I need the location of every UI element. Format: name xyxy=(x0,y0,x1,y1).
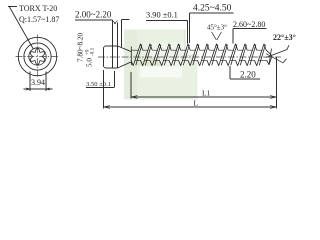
tip angle upper line xyxy=(266,45,289,58)
45 deg callout V xyxy=(212,32,222,40)
svg-text:Q:1.57~1.87: Q:1.57~1.87 xyxy=(19,15,59,24)
dim 2.20 underline and extension xyxy=(230,66,260,79)
svg-text:3.50 ±0.1: 3.50 ±0.1 xyxy=(86,81,111,88)
front view curves xyxy=(10,7,57,76)
svg-text:3.94: 3.94 xyxy=(31,78,45,87)
dim 2.60~2.80 underline and extension xyxy=(233,29,267,44)
svg-text:TORX T-20: TORX T-20 xyxy=(19,4,57,13)
svg-text:22°±3°: 22°±3° xyxy=(273,33,296,42)
svg-text:2.00~2.20: 2.00~2.20 xyxy=(75,10,112,20)
head face xyxy=(103,48,105,67)
head middle circle xyxy=(24,43,51,70)
arrows and diagonal callouts xyxy=(26,21,289,109)
svg-text:L: L xyxy=(194,99,199,108)
cone bottom xyxy=(118,62,132,68)
L arrows xyxy=(104,106,277,109)
svg-text:5.0: 5.0 xyxy=(86,58,94,67)
dim 3.94 extension lines xyxy=(30,72,46,92)
leader tick xyxy=(8,6,17,8)
svg-text:4.25~4.50: 4.25~4.50 xyxy=(193,4,232,14)
svg-text:3.90 ±0.1: 3.90 ±0.1 xyxy=(146,11,178,20)
svg-text:2.60~2.80: 2.60~2.80 xyxy=(233,20,265,29)
torx recess circle xyxy=(29,48,46,65)
svg-text:2.20: 2.20 xyxy=(240,70,256,80)
L extension left xyxy=(103,70,105,109)
dim 3.94 arrows xyxy=(26,88,50,90)
centerlines xyxy=(16,35,282,79)
svg-text:-0.1: -0.1 xyxy=(90,47,96,56)
crisp straight linework xyxy=(8,7,277,109)
svg-text:7.80~8.20: 7.80~8.20 xyxy=(77,33,85,62)
front view horizontal centerline xyxy=(16,56,60,58)
L1 dimension line xyxy=(131,96,277,98)
svg-text:45°±3°: 45°±3° xyxy=(207,24,227,32)
side view centerline xyxy=(98,56,281,58)
dim 2.00~2.20 arrows xyxy=(113,21,118,25)
head chamfers xyxy=(104,46,106,68)
thread xyxy=(131,44,272,66)
extension lines above head xyxy=(113,20,122,48)
tip extension xyxy=(276,57,278,109)
dim 3.94 dimension line xyxy=(24,88,53,90)
head feature line xyxy=(112,46,114,68)
L1 extension left xyxy=(130,72,132,99)
dim 2.00~2.20 shelf xyxy=(75,19,113,21)
dim 3.90 shelf and extension xyxy=(146,21,188,44)
front view vertical centerline xyxy=(37,35,39,79)
L1 arrows xyxy=(131,96,277,99)
svg-text:L1: L1 xyxy=(202,89,211,98)
head top xyxy=(105,45,118,47)
L dimension line xyxy=(104,106,277,108)
head outer circle xyxy=(18,37,56,75)
head bottom xyxy=(105,67,118,69)
leader line to torx xyxy=(10,7,34,49)
torx star xyxy=(30,48,45,65)
cone top xyxy=(118,46,132,52)
head right face xyxy=(117,46,119,68)
watermark logo xyxy=(124,30,198,100)
dim 2.00~2.20 right tick xyxy=(122,19,130,21)
dim 3.50 riser xyxy=(114,71,116,88)
dim 3.50 underline xyxy=(86,87,114,89)
tip angle lower line xyxy=(266,54,287,63)
dim 4.25~4.50 shelf and extension xyxy=(190,13,234,43)
